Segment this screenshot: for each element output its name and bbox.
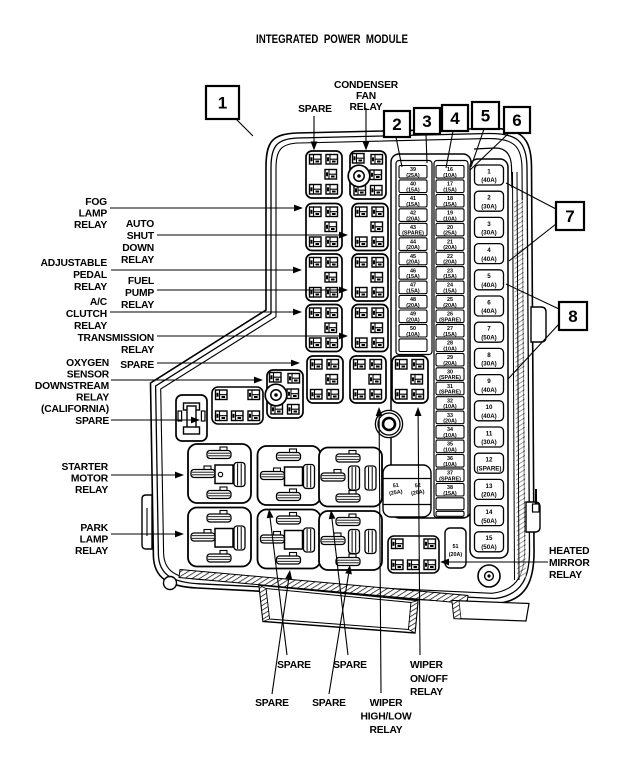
svg-text:DOWN: DOWN [122, 243, 154, 254]
svg-text:(20A): (20A) [443, 245, 457, 251]
svg-text:RELAY: RELAY [350, 102, 383, 113]
svg-text:SPARE: SPARE [120, 360, 154, 371]
svg-text:RELAY: RELAY [121, 255, 154, 266]
svg-text:2: 2 [392, 115, 401, 134]
svg-text:7: 7 [565, 207, 574, 226]
svg-text:14: 14 [486, 509, 493, 516]
svg-text:(SPARE): (SPARE) [439, 375, 461, 381]
svg-text:RELAY: RELAY [410, 687, 443, 698]
svg-text:15: 15 [486, 535, 493, 542]
svg-text:DOWNSTREAM: DOWNSTREAM [35, 381, 109, 392]
svg-text:(15A): (15A) [406, 202, 420, 208]
svg-text:SPARE: SPARE [255, 698, 289, 709]
svg-text:51: 51 [392, 483, 399, 490]
svg-text:13: 13 [486, 483, 493, 490]
svg-text:(10A): (10A) [443, 346, 457, 352]
svg-text:RELAY: RELAY [74, 282, 107, 293]
svg-text:SPARE: SPARE [312, 698, 346, 709]
svg-text:(15A): (15A) [443, 289, 457, 295]
svg-text:(10A): (10A) [443, 447, 457, 453]
svg-text:INTEGRATED POWER MODULE: INTEGRATED POWER MODULE [256, 33, 408, 46]
svg-text:(40A): (40A) [481, 308, 496, 315]
svg-text:(25A): (25A) [443, 231, 457, 237]
svg-text:8: 8 [487, 352, 491, 359]
svg-text:(CALIFORNIA): (CALIFORNIA) [41, 404, 109, 415]
svg-text:(25A): (25A) [406, 173, 420, 179]
svg-text:OXYGEN: OXYGEN [66, 358, 109, 369]
svg-text:2: 2 [487, 195, 491, 202]
svg-text:MIRROR: MIRROR [549, 558, 590, 569]
svg-text:WIPER: WIPER [370, 698, 404, 709]
svg-text:3: 3 [422, 112, 431, 131]
svg-text:(SPARE): (SPARE) [439, 317, 461, 323]
svg-text:10: 10 [486, 404, 493, 411]
svg-text:(10A): (10A) [443, 404, 457, 410]
svg-text:AUTO: AUTO [126, 219, 154, 230]
svg-text:HIGH/LOW: HIGH/LOW [360, 712, 412, 723]
svg-text:LAMP: LAMP [79, 209, 108, 220]
svg-text:RELAY: RELAY [549, 570, 582, 581]
svg-text:5: 5 [481, 107, 490, 126]
svg-text:(20A): (20A) [443, 260, 457, 266]
svg-text:(20A): (20A) [443, 303, 457, 309]
svg-text:(SPARE): (SPARE) [439, 390, 461, 396]
svg-text:RELAY: RELAY [121, 300, 154, 311]
svg-text:WIPER: WIPER [410, 660, 444, 671]
svg-text:RELAY: RELAY [74, 321, 107, 332]
svg-text:CLUTCH: CLUTCH [66, 309, 107, 320]
svg-text:1: 1 [218, 94, 227, 113]
svg-text:ON/OFF: ON/OFF [410, 674, 448, 685]
svg-text:(10A): (10A) [406, 332, 420, 338]
svg-text:TRANSMISSION: TRANSMISSION [77, 333, 154, 344]
svg-text:8: 8 [568, 307, 577, 326]
svg-text:RELAY: RELAY [370, 725, 403, 736]
svg-text:(20A): (20A) [406, 216, 420, 222]
svg-text:4: 4 [450, 109, 460, 128]
svg-text:(20A): (20A) [449, 552, 463, 558]
svg-text:ADJUSTABLE: ADJUSTABLE [41, 258, 108, 269]
svg-text:PEDAL: PEDAL [73, 270, 107, 281]
svg-text:(30A): (30A) [481, 230, 496, 237]
svg-text:PUMP: PUMP [125, 288, 154, 299]
svg-text:CONDENSER: CONDENSER [334, 80, 399, 91]
svg-text:(SPARE): (SPARE) [439, 476, 461, 482]
svg-text:(15A): (15A) [406, 289, 420, 295]
svg-text:SENSOR: SENSOR [67, 370, 110, 381]
svg-text:7: 7 [487, 326, 491, 333]
svg-text:6: 6 [487, 299, 491, 306]
svg-text:FOG: FOG [85, 197, 107, 208]
svg-text:(40A): (40A) [481, 177, 496, 184]
svg-text:9: 9 [487, 378, 491, 385]
svg-text:5: 5 [487, 273, 491, 280]
svg-text:RELAY: RELAY [75, 546, 108, 557]
svg-text:RELAY: RELAY [76, 393, 109, 404]
svg-text:SPARE: SPARE [277, 660, 311, 671]
svg-text:PARK: PARK [80, 523, 108, 534]
svg-text:(40A): (40A) [481, 282, 496, 289]
svg-text:(50A): (50A) [481, 544, 496, 551]
svg-text:(15A): (15A) [443, 491, 457, 497]
svg-text:STARTER: STARTER [62, 462, 109, 473]
svg-text:SHUT: SHUT [127, 231, 155, 242]
svg-text:(20A): (20A) [406, 303, 420, 309]
svg-text:(10A): (10A) [443, 462, 457, 468]
svg-text:3: 3 [487, 221, 491, 228]
svg-text:(40A): (40A) [481, 413, 496, 420]
svg-text:FUEL: FUEL [128, 276, 154, 287]
svg-text:HEATED: HEATED [549, 546, 589, 557]
svg-text:51: 51 [453, 544, 459, 550]
svg-text:(10A): (10A) [443, 433, 457, 439]
svg-text:SPARE: SPARE [75, 416, 109, 427]
svg-text:(30A): (30A) [481, 439, 496, 446]
svg-text:(20A): (20A) [406, 317, 420, 323]
svg-text:(15A): (15A) [443, 274, 457, 280]
svg-text:SPARE: SPARE [298, 104, 332, 115]
svg-text:1: 1 [487, 168, 491, 175]
svg-text:RELAY: RELAY [74, 220, 107, 231]
svg-text:SPARE: SPARE [333, 660, 367, 671]
svg-text:(10A): (10A) [443, 216, 457, 222]
svg-text:(10A): (10A) [443, 173, 457, 179]
svg-text:(15A): (15A) [443, 202, 457, 208]
svg-text:(SPARE): (SPARE) [402, 231, 424, 237]
svg-text:(20A): (20A) [481, 492, 496, 499]
svg-text:(50A): (50A) [481, 518, 496, 525]
svg-text:(SPARE): (SPARE) [477, 465, 502, 472]
svg-text:A/C: A/C [90, 297, 108, 308]
svg-text:(15A): (15A) [406, 274, 420, 280]
svg-text:(15A): (15A) [406, 187, 420, 193]
svg-text:FAN: FAN [356, 91, 376, 102]
svg-text:(50A): (50A) [481, 334, 496, 341]
svg-text:(20A): (20A) [443, 419, 457, 425]
svg-text:4: 4 [487, 247, 491, 254]
svg-text:(40A): (40A) [481, 387, 496, 394]
svg-text:(30A): (30A) [481, 361, 496, 368]
svg-text:52: 52 [414, 483, 421, 490]
svg-text:(15A): (15A) [443, 332, 457, 338]
svg-text:11: 11 [486, 430, 493, 437]
svg-text:(15A): (15A) [443, 187, 457, 193]
svg-text:RELAY: RELAY [75, 485, 108, 496]
svg-text:RELAY: RELAY [121, 345, 154, 356]
svg-text:(20A): (20A) [406, 260, 420, 266]
svg-text:(30A): (30A) [481, 203, 496, 210]
svg-text:(20A): (20A) [443, 361, 457, 367]
svg-text:(20A): (20A) [406, 245, 420, 251]
svg-text:LAMP: LAMP [80, 535, 109, 546]
svg-text:12: 12 [486, 457, 493, 464]
svg-text:MOTOR: MOTOR [71, 474, 109, 485]
svg-text:(40A): (40A) [481, 256, 496, 263]
svg-text:6: 6 [512, 111, 521, 130]
